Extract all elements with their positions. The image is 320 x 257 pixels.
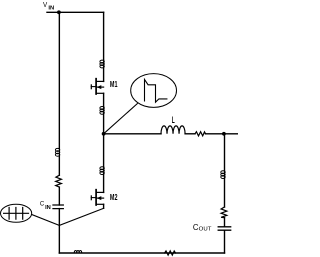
wire COUT to ground rail <box>224 230 226 253</box>
wire to COUT <box>224 218 226 227</box>
wire to M2 drain stub <box>103 174 105 192</box>
wire left branch upper <box>58 12 60 148</box>
parasitic inductance ESL of CIN <box>55 148 59 156</box>
parasitic inductance below M1 <box>100 107 104 115</box>
coil symbol inside ellipse <box>4 208 29 220</box>
svg-text:L: L <box>172 115 175 125</box>
transistor M1 <box>91 79 117 94</box>
svg-text:M2: M2 <box>110 192 118 202</box>
wire right branch from VOUT node <box>224 134 226 171</box>
svg-text:OUT: OUT <box>199 227 212 233</box>
wire from M2 source to CIN ground node <box>59 208 103 225</box>
callout ellipse hot-loop coil <box>1 204 32 222</box>
wire M-branch from top rail <box>103 12 105 60</box>
wire M2 drain from SW node <box>103 134 105 167</box>
callout ellipse switch waveform <box>131 74 177 108</box>
svg-text:M1: M1 <box>110 79 118 89</box>
wire resistor to VOUT node <box>206 133 238 135</box>
wire to switch node <box>103 114 105 134</box>
resistor ground trace ESR <box>165 251 176 255</box>
node junction dot VIN <box>57 10 61 14</box>
resistor trace ESR after L <box>195 132 206 136</box>
capacitor CIN <box>53 205 63 209</box>
parasitic inductance above M2 <box>100 167 104 175</box>
svg-text:IN: IN <box>45 205 51 211</box>
inductor L <box>161 126 185 134</box>
transistor M2 <box>91 190 117 205</box>
wire ground rail <box>59 252 224 254</box>
wire CIN to ground rail <box>58 209 60 253</box>
wire inductor to resistor <box>185 133 195 135</box>
wire M1 source down <box>103 93 105 106</box>
node VIN label <box>43 0 54 12</box>
node SW junction dot <box>102 132 106 136</box>
wire M2 source down <box>103 204 105 208</box>
svg-text:V: V <box>43 0 48 9</box>
node VOUT junction dot <box>222 132 226 136</box>
wire pointer from waveform ellipse to SW node <box>104 104 138 134</box>
parasitic inductance ground trace <box>74 251 81 253</box>
parasitic inductance ESL of COUT <box>221 171 225 179</box>
resistor ESR of CIN <box>56 175 62 187</box>
wire left branch to CIN <box>58 187 60 205</box>
capacitor COUT <box>218 227 231 230</box>
wire pointer from ellipse to CIN ground node <box>32 214 60 225</box>
wire to M1 drain <box>103 67 105 81</box>
resistor ESR of COUT <box>221 207 227 218</box>
wire top rail VIN <box>47 11 104 13</box>
svg-text:IN: IN <box>48 6 54 12</box>
wire left branch mid <box>58 156 60 175</box>
waveform ringing trace <box>145 79 167 102</box>
parasitic inductance above M1 <box>100 60 104 68</box>
wire right branch mid <box>224 178 226 207</box>
wire SW node to inductor <box>104 133 161 135</box>
